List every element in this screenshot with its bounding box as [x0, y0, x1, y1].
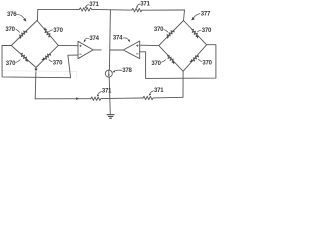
resistor 370 right-bridge upper-left	[165, 29, 175, 39]
svg-text:370: 370	[6, 61, 16, 67]
svg-text:371: 371	[154, 88, 164, 94]
svg-text:371: 371	[89, 2, 99, 8]
wire right bridge bottom lead	[182, 71, 184, 97]
arrow 376	[16, 14, 24, 19]
wire left amp +input from bridge right vertex	[58, 44, 78, 46]
svg-text:370: 370	[151, 61, 161, 67]
resistor 370 left-bridge lower-right	[41, 52, 51, 62]
resistor 370 right-bridge upper-right	[190, 29, 200, 39]
svg-text:374: 374	[89, 36, 99, 42]
resistor 370 left-bridge lower-left	[20, 53, 30, 63]
wire left bridge bottom lead	[34, 68, 37, 99]
resistor R bottom-right 371 squiggle	[143, 96, 153, 99]
left bridge diamond 376	[11, 21, 58, 68]
svg-text:371: 371	[102, 89, 112, 95]
wire left feedback loop: left vertex to bottom	[2, 46, 78, 78]
scan ghost line	[2, 71, 77, 78]
ground	[107, 115, 114, 119]
wire top rail mid segment	[92, 8, 132, 11]
op-amp U2 374 right	[123, 41, 139, 59]
svg-text:370: 370	[154, 27, 164, 33]
resistor R top-right 371 squiggle	[132, 8, 142, 11]
svg-text:378: 378	[122, 68, 132, 74]
wire bottom rail left segment	[35, 98, 90, 100]
svg-text:370: 370	[53, 28, 63, 34]
wire right amp +input to right bridge left vertex	[140, 44, 159, 46]
wire center rail vertical	[109, 10, 110, 70]
right bridge diamond 377	[159, 21, 207, 72]
svg-text:370: 370	[202, 28, 212, 34]
resistor R bottom-left 371 squiggle	[91, 97, 101, 100]
svg-text:370: 370	[5, 27, 15, 33]
svg-text:371: 371	[140, 2, 150, 8]
leader arrow 371 top-left	[86, 5, 89, 7]
wire center rail below source to ground	[109, 77, 110, 114]
wire right amp output to center rail	[110, 49, 123, 51]
svg-text:376: 376	[7, 12, 17, 18]
wire left bridge top lead	[36, 9, 38, 20]
op-amp U1 374 left	[78, 41, 93, 58]
svg-text:374: 374	[113, 36, 123, 42]
resistor 370 left-bridge upper-left	[18, 29, 28, 39]
svg-text:377: 377	[201, 11, 211, 17]
wire top rail left segment	[38, 8, 80, 10]
wire left amp output stub	[93, 49, 101, 51]
wire bottom rail right segment	[153, 96, 183, 99]
resistor 370 left-bridge upper-right	[42, 27, 52, 37]
resistor 370 right-bridge lower-left	[166, 55, 176, 65]
wire bottom rail mid segment	[101, 97, 143, 100]
leader arrow 371 top-right	[137, 4, 140, 7]
arrowhead current right on bottom rail	[76, 97, 79, 100]
wire right feedback loop under right bridge	[140, 45, 216, 79]
wire right bridge top lead	[184, 10, 185, 21]
arrowhead current down at left bridge bottom	[34, 69, 37, 72]
svg-text:370: 370	[202, 61, 212, 67]
current source I 378	[105, 70, 112, 77]
resistor R top-left 371 squiggle	[79, 8, 91, 11]
wire top rail right segment	[142, 9, 185, 11]
resistor 370 right-bridge lower-right	[189, 54, 199, 64]
svg-text:370: 370	[53, 60, 63, 66]
